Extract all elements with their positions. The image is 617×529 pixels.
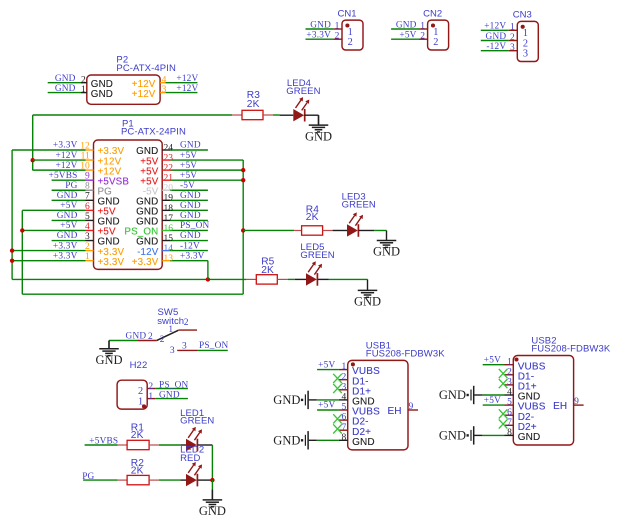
svg-text:+3.3V: +3.3V [53,251,78,261]
CN2 pin 1 stub [419,28,428,30]
wire down to ground black [211,490,213,500]
CN2 pin 2 stub [419,38,428,40]
P1 pin 4 stub [86,229,94,231]
svg-text:+5V: +5V [180,171,197,181]
wire down to ground green [211,480,213,490]
H22 pin 1 stub [147,398,155,400]
CN3 pin 2 stub [509,40,518,42]
P1 pin 16 stub [162,229,170,231]
svg-text:12: 12 [80,141,90,151]
USB1 pin 8 stub [339,439,348,441]
R5 left stub [246,278,256,280]
CN2 pin 1 wire [391,28,419,30]
ground bar GND at USB2 pin 4 [439,386,474,404]
svg-text:1: 1 [335,21,340,31]
connector P2 body [87,75,160,104]
svg-text:FUS208-FDBW3K: FUS208-FDBW3K [366,349,445,360]
USB1 pin 1 wire [317,369,339,371]
connector CN3 [513,10,539,62]
H22 pin 2 stub [147,388,155,390]
connector CN2 [423,8,449,50]
P2 pin 2 stub [81,82,87,84]
P1 pin 17 stub [162,219,170,221]
svg-text:+12V: +12V [176,84,198,94]
wire +5V vertical bus right [242,160,244,294]
USB2 pin 9 stub [574,404,584,406]
connector H22 body [117,380,147,409]
USB2 pin 3 no-connect X [499,379,508,388]
svg-text:GND: GND [57,191,78,201]
svg-text:8: 8 [85,182,90,192]
H22 pin 1 marker dot [142,404,146,408]
ground bar GND at USB2 pin 8 [439,426,474,444]
svg-text:H22: H22 [130,360,148,371]
svg-text:PS_ON: PS_ON [180,221,210,231]
R3 left stub [232,114,242,116]
wire +3.3V bottom loop to R5 [12,278,246,280]
P2 pin 3 wire [166,92,198,94]
svg-text:GND: GND [55,74,76,84]
P1 pin 3 stub [86,240,94,242]
LED LED3 [347,212,363,236]
svg-text:11: 11 [81,151,90,161]
USB2 pin 3 stub [505,384,514,386]
svg-text:GND: GND [352,437,375,448]
P1 pin 22 stub [162,169,170,171]
svg-text:3: 3 [182,342,187,352]
svg-text:9: 9 [409,402,414,412]
junction +3.3V at P1 pin 1 [10,258,14,262]
svg-text:5: 5 [342,403,347,413]
svg-text:18: 18 [164,204,174,214]
svg-text:1: 1 [420,21,425,31]
svg-text:GND: GND [273,393,300,407]
svg-text:+5V: +5V [318,360,335,370]
connector P1 body [94,140,163,269]
wire LED2 cathode [198,479,213,481]
P1 pin 22 wire [170,169,243,171]
wire R2 to LED2 green [159,479,181,481]
svg-text:1: 1 [138,396,143,407]
svg-text:+5V: +5V [180,151,197,161]
svg-text:+3.3V: +3.3V [306,31,331,41]
P1 pin 12 stub [86,149,94,151]
svg-text:+12V: +12V [484,22,506,32]
USB2 pin 8 stub [505,434,514,436]
P1 pin 5 wire [52,219,86,221]
R2 left stub [118,479,128,481]
P1 pin 5 stub [86,219,94,221]
ground bar GND at USB1 pin 4 [273,391,308,409]
H22 pin 2 wire [155,388,188,390]
svg-text:GND: GND [57,211,78,221]
R3 right stub [263,114,273,116]
svg-text:2: 2 [507,367,512,377]
svg-text:+3.3V: +3.3V [180,251,205,261]
svg-text:GND: GND [180,191,201,201]
svg-text:3: 3 [342,382,347,392]
svg-text:2K: 2K [306,212,319,223]
svg-text:1: 1 [507,357,512,367]
LED LED5 [306,261,322,285]
resistor R2 [127,475,149,484]
svg-text:GND: GND [310,20,331,30]
P2 pin 3 stub [160,92,166,94]
svg-text:3: 3 [85,232,90,242]
svg-text:4: 4 [162,75,167,85]
wire R4 to LED3 [333,229,347,231]
P1 pin 1 stub [86,260,94,262]
USB2 pin 4 stub [505,394,514,396]
connector USB2 body [513,356,573,446]
svg-text:CN3: CN3 [513,10,532,21]
R2 right stub [149,479,159,481]
svg-text:1: 1 [342,362,347,372]
svg-text:+3.3V: +3.3V [132,257,159,268]
svg-text:6: 6 [342,413,347,423]
svg-text:GREEN: GREEN [286,86,320,97]
svg-text:+5V: +5V [484,396,501,406]
P1 pin 2 wire [12,250,85,252]
svg-text:2: 2 [420,32,425,42]
svg-text:21: 21 [164,174,174,184]
svg-text:+5VBS: +5VBS [49,171,78,181]
svg-text:GND: GND [180,141,201,151]
svg-text:4: 4 [342,393,347,403]
svg-text:+5V: +5V [60,201,77,211]
USB2 pin 2 stub [505,374,514,376]
P1 pin 6 stub [86,209,94,211]
wire into LED5 [295,278,306,280]
svg-text:GND: GND [55,84,76,94]
USB2 pin 1 wire [483,364,505,366]
svg-text:EH: EH [387,406,401,417]
svg-text:GND: GND [486,32,507,42]
USB1 pin 6 no-connect X [333,414,342,423]
svg-text:CN2: CN2 [423,8,442,19]
svg-text:GND: GND [159,391,180,401]
resistor R5 [256,275,277,284]
USB1 pin 1 marker dot [351,362,355,366]
CN1 pin 2 stub [333,38,342,40]
P1 pin 6 wire [22,209,85,211]
svg-text:8: 8 [342,433,347,443]
svg-text:3: 3 [162,85,167,95]
CN1 pin 1 stub [333,28,342,30]
SW5 pin 3 wire [197,349,228,351]
connector USB1 body [348,360,408,450]
svg-text:GND: GND [273,434,300,448]
P1 pin 14 wire [170,250,208,252]
wire into LED2 [180,479,186,481]
svg-text:19: 19 [164,194,174,204]
svg-text:GND: GND [180,231,201,241]
svg-text:6: 6 [85,202,90,212]
USB1 pin 8 wire black [309,439,317,441]
svg-text:GND: GND [354,295,381,309]
H22 pin 1 wire [155,398,188,400]
svg-text:14: 14 [164,244,174,254]
svg-text:2: 2 [184,318,189,328]
ground GND at SW5 [95,341,122,368]
ground bar GND at USB1 pin 8 [273,431,308,449]
P1 pin 10 wire [33,169,86,171]
svg-text:2: 2 [335,32,340,42]
wire LED4 down to ground [318,115,320,125]
wire LED1/LED2 cathode vertical [211,445,213,480]
svg-text:3: 3 [170,346,175,356]
svg-text:1: 1 [85,252,90,262]
P1 pin 16 wire [170,229,208,231]
P1 pin 21 wire [170,179,243,181]
ground GND at LED3 [373,230,400,258]
USB2 pin 7 no-connect X [499,419,508,428]
R4 right stub [323,229,333,231]
P2 pin 2 wire [48,82,81,84]
svg-text:FUS208-FDBW3K: FUS208-FDBW3K [531,344,610,355]
wire +12V net vertical bus [32,115,34,170]
svg-text:2: 2 [148,332,153,342]
wire LED4 cathode [305,114,319,116]
P1 pin 7 wire [52,199,86,201]
P1 pin 8 wire [52,189,86,191]
connector CN1 [338,8,364,50]
USB2 pin 4 wire black [474,394,482,396]
svg-text:GND: GND [180,211,201,221]
junction +5V at P1 pin 4 [20,228,24,232]
svg-text:7: 7 [85,192,90,202]
wire LED5 cathode black [318,278,329,280]
svg-text:7: 7 [342,423,347,433]
svg-text:20: 20 [164,184,174,194]
svg-text:3: 3 [510,43,515,53]
P1 pin 15 stub [162,240,170,242]
wire +3.3V vertical bus left [11,150,13,279]
svg-text:16: 16 [164,224,174,234]
svg-text:+12V: +12V [55,161,77,171]
wire LED1 cathode [198,444,213,446]
USB2 pin 1 stub [505,364,514,366]
P1 pin 7 stub [86,199,94,201]
svg-text:-5V: -5V [180,181,195,191]
P2 pin 4 stub [160,82,166,84]
svg-text:PG: PG [82,472,94,482]
svg-text:2: 2 [342,372,347,382]
P1 pin 17 wire [170,219,208,221]
svg-text:GREEN: GREEN [180,416,214,427]
svg-text:GND: GND [91,89,113,100]
svg-text:GND: GND [439,429,466,443]
svg-text:GND: GND [439,388,466,402]
junction +3.3V at pin 13 drop [206,277,210,281]
junction +5V at P1 pin 22 [241,168,245,172]
junction +12V at P1 pin 11 [31,158,35,162]
P2 pin 4 wire [166,82,198,84]
svg-text:+5V: +5V [180,161,197,171]
svg-text:+12V: +12V [132,89,156,100]
CN3 pin 3 wire [481,50,509,52]
USB2 pin 1 marker dot [514,357,518,361]
svg-text:15: 15 [164,234,174,244]
svg-text:GND: GND [126,332,147,342]
P2 pin 1 stub [81,92,87,94]
USB2 pin 8 wire black [474,434,482,436]
CN2 pin 2 wire [391,38,419,40]
svg-text:CN1: CN1 [338,8,357,19]
junction +5V at P1 pin 21 [241,178,245,182]
svg-text:24: 24 [164,143,174,153]
svg-text:PC-ATX-4PIN: PC-ATX-4PIN [116,63,176,74]
svg-text:+12V: +12V [176,74,198,84]
P1 pin 23 stub [162,159,170,161]
P1 pin 24 wire [170,149,208,151]
R4 left stub [294,229,301,231]
P1 pin 9 wire [52,179,86,181]
P1 pin 20 wire [170,189,208,191]
USB1 pin 7 no-connect X [333,424,342,433]
USB2 pin 6 no-connect X [499,409,508,418]
svg-text:PS_ON: PS_ON [199,341,229,351]
P1 pin 11 stub [86,159,94,161]
P1 pin 23 wire [170,159,243,161]
wire P1 pin 13 drop down [207,261,209,280]
P1 pin 2 stub [86,250,94,252]
SW5 lever [157,330,179,340]
CN3 pin 1 wire [481,29,509,31]
P1 pin 24 stub [162,149,170,151]
USB1 pin 4 stub [339,399,348,401]
wire into LED1 [180,444,186,446]
svg-text:2: 2 [160,335,165,345]
USB1 pin 6 stub [339,419,348,421]
LED LED1 [186,427,202,451]
svg-text:+12V: +12V [55,151,77,161]
wire PG to R2 [83,479,118,481]
P1 pin 9 stub [86,179,94,181]
svg-text:GND: GND [95,353,122,367]
svg-text:-12V: -12V [180,241,200,251]
P1 pin 13 wire [170,260,208,262]
P1 pin 19 stub [162,199,170,201]
P1 pin 19 wire [170,199,208,201]
svg-text:2: 2 [85,242,90,252]
svg-text:+5V: +5V [399,31,416,41]
svg-text:EH: EH [553,401,567,412]
CN1 pin 2 wire [306,38,334,40]
P1 pin 21 stub [162,179,170,181]
wire +5VBS to R1 [85,444,118,446]
P1 pin 11 wire [33,159,86,161]
SW5 common stub [138,340,157,342]
wire +5V vertical bus left [21,210,23,294]
USB1 pin 3 no-connect X [333,384,342,393]
P2 pin 1 wire [48,92,81,94]
svg-text:+5V: +5V [318,401,335,411]
svg-text:GND: GND [199,504,226,518]
svg-text:3: 3 [507,378,512,388]
wire +5V bottom loop [22,293,243,295]
P1 pin 14 stub [162,250,170,252]
USB1 pin 1 stub [339,369,348,371]
USB2 pin 5 wire [483,404,505,406]
svg-text:7: 7 [507,418,512,428]
svg-text:PG: PG [65,181,77,191]
svg-text:8: 8 [507,428,512,438]
resistor R3 [242,110,263,119]
R1 right stub [149,444,159,446]
USB1 pin 2 no-connect X [333,374,342,383]
svg-text:9: 9 [85,172,90,182]
CN1 pin 1 wire [306,28,334,30]
svg-text:+5VBS: +5VBS [89,437,118,447]
junction +5V at R4 tap [241,228,245,232]
ground GND at LED4 [305,115,332,143]
svg-text:PS_ON: PS_ON [159,381,189,391]
USB1 pin 4 wire green [317,399,339,401]
junction LED2 cathode [210,478,214,482]
P1 pin 3 wire [52,240,86,242]
USB2 pin 2 no-connect X [499,369,508,378]
USB2 pin 7 stub [505,424,514,426]
resistor R1 [127,440,149,449]
svg-text:22: 22 [164,164,174,174]
SW5 pin 3 stub [177,349,197,351]
USB1 pin 7 stub [339,429,348,431]
svg-text:PC-ATX-24PIN: PC-ATX-24PIN [121,127,186,138]
svg-text:GND: GND [305,129,332,143]
wire LED3 cathode black [359,229,375,231]
P1 pin 4 wire [22,229,85,231]
USB1 pin 2 stub [339,379,348,381]
svg-text:+5V: +5V [60,221,77,231]
svg-text:5: 5 [507,398,512,408]
USB1 pin 5 wire [317,409,339,411]
resistor R4 [302,226,323,235]
CN3 pin 1 stub [509,29,518,31]
wire LED3 cathode green [374,229,386,231]
P1 pin 18 stub [162,209,170,211]
wire LED5 cathode green [329,278,368,280]
svg-text:GND: GND [180,201,201,211]
svg-text:2: 2 [81,75,86,85]
svg-text:GREEN: GREEN [300,250,334,261]
USB1 pin 4 wire black [309,399,317,401]
svg-text:+3.3V: +3.3V [53,141,78,151]
ground GND at LED5 [354,279,381,308]
svg-text:GREEN: GREEN [342,199,376,210]
USB1 pin 5 stub [339,409,348,411]
CN3 pin 2 wire [481,40,509,42]
svg-text:5: 5 [85,212,90,222]
svg-text:2: 2 [148,382,153,392]
svg-text:6: 6 [507,408,512,418]
LED LED4 [293,97,309,121]
svg-text:17: 17 [164,214,174,224]
svg-text:1: 1 [81,85,86,95]
svg-text:GND: GND [396,20,417,30]
wire +5V to R4 [243,229,294,231]
USB2 pin 8 wire green [482,434,504,436]
svg-text:2: 2 [348,37,353,48]
svg-text:2K: 2K [131,430,144,441]
P1 pin 1 wire [12,260,85,262]
svg-text:+3.3V: +3.3V [53,241,78,251]
CN3 pin 3 stub [509,50,518,52]
svg-text:2: 2 [510,33,515,43]
R5 right stub [277,278,287,280]
svg-text:2K: 2K [247,99,260,110]
svg-text:GND: GND [57,231,78,241]
